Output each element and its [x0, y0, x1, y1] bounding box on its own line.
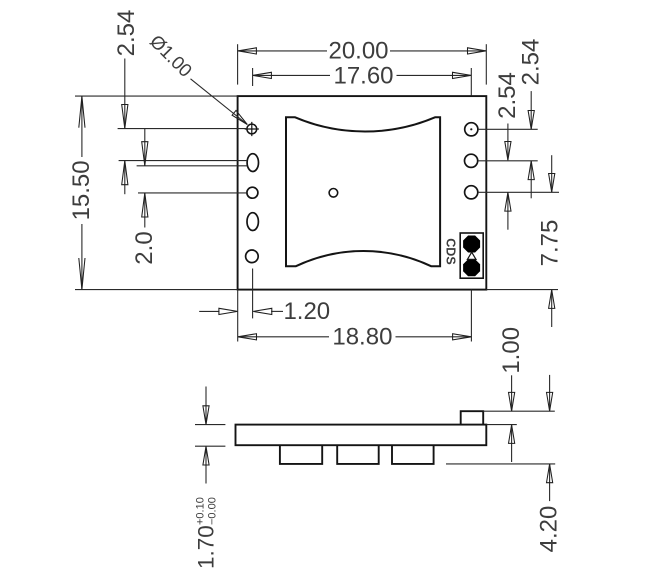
dimension 7.75 line: [551, 155, 553, 192]
arrow 1.70 (down): [203, 406, 209, 425]
arrow 2.54 right outer (up): [528, 161, 534, 180]
svg-text:Ø1.00: Ø1.00: [146, 30, 196, 80]
hole H1 extension line: [118, 128, 247, 130]
arrow 15.50 top (up): [79, 96, 85, 127]
right hole extension lines: [478, 128, 538, 130]
svg-text:20.00: 20.00: [328, 38, 388, 65]
arrow 20.00 left: [238, 48, 257, 54]
svg-text:18.80: 18.80: [332, 324, 392, 351]
arrow 1.00 (up): [509, 425, 515, 444]
component outline (concave-edged square): [286, 117, 440, 266]
side view bar top extension: [486, 424, 517, 426]
svg-text:2.54: 2.54: [517, 39, 544, 86]
dimension 2.54 right inner line: [507, 124, 509, 161]
svg-text:1.20: 1.20: [283, 298, 330, 325]
leader line for hole diameter: [191, 79, 248, 125]
arrow 2.54 right inner (down): [505, 142, 511, 161]
arrow 4.20 (down): [547, 392, 553, 411]
arrow 17.60 right: [453, 72, 472, 78]
hole H3 extension line: [138, 192, 247, 194]
dimension 20.00 extension lines: [237, 44, 239, 84]
dimension 2.54 left line: [124, 59, 126, 129]
arrow 1.20 right (left-pointing): [253, 308, 272, 314]
oval O2 lower extension line: [137, 165, 248, 167]
svg-text:2.0: 2.0: [131, 231, 158, 264]
side view component 2: [337, 445, 379, 464]
arrow 18.80 right: [453, 334, 472, 340]
dimension 1.70 line: [205, 387, 207, 425]
dimension 1.00 line: [511, 375, 513, 411]
extension lines below PCB: [237, 290, 239, 342]
right hole R3: [465, 186, 478, 199]
arrow 1.70 (up): [203, 446, 209, 465]
arrow 1.20 left (right-pointing): [219, 308, 238, 314]
oval pad O4: [247, 213, 258, 231]
svg-text:4.20: 4.20: [536, 506, 563, 553]
arrow 17.60 left: [253, 72, 272, 78]
arrow 7.75 (down): [549, 174, 555, 193]
hole H5: [246, 250, 259, 263]
side view component 1: [280, 445, 322, 464]
CDS sensor bottom pad: [463, 259, 480, 276]
oval pad O2: [247, 154, 258, 172]
dimension 2.54 right outer line: [530, 91, 532, 129]
right hole R1 with center dot: [465, 123, 478, 136]
dimension 4.20 line: [549, 375, 551, 411]
dimension 17.60 line: [253, 74, 330, 76]
arrow 1.00 (down): [509, 392, 515, 411]
side view PCB bar: [236, 425, 487, 446]
bottom edge extension line: [75, 289, 238, 291]
dimension 18.80 line: [238, 336, 329, 338]
arrow 2.0 (down): [142, 142, 148, 166]
svg-text:+0.10: +0.10: [195, 497, 207, 525]
svg-text:15.50: 15.50: [68, 160, 95, 220]
arrow 2.0 (up): [142, 193, 148, 217]
side view component 3: [392, 445, 434, 464]
side view step top extension: [483, 410, 555, 412]
dimension 20.00 line: [238, 50, 327, 52]
side view component bottom extension: [446, 463, 555, 465]
right hole R2: [465, 154, 478, 167]
arrow 4.20 (up): [547, 464, 553, 483]
CDS triangle marker: [467, 252, 476, 259]
svg-text:CDS: CDS: [444, 238, 458, 264]
dimension 15.50 line: [81, 96, 83, 157]
side view shield step: [461, 411, 484, 424]
PCB outline top view: [238, 96, 487, 290]
svg-text:2.54: 2.54: [113, 10, 140, 57]
arrow 2.54 right inner (up): [505, 193, 511, 212]
arrow 20.00 right: [468, 48, 487, 54]
CDS sensor body: [460, 233, 483, 278]
dimension 1.20 line: [199, 310, 219, 312]
arrow 2.54 left (down at hole1 line): [122, 105, 128, 129]
CDS sensor top pad: [463, 236, 480, 253]
dimension 2.0 line: [144, 129, 146, 166]
center hole: [329, 189, 338, 198]
svg-text:17.60: 17.60: [333, 62, 393, 89]
dimension 17.60 extension lines: [252, 68, 254, 86]
hole H3: [247, 187, 258, 198]
hole H1 with cross: [247, 124, 257, 134]
svg-text:1.70: 1.70: [193, 525, 218, 569]
arrow 2.54 right outer (down): [528, 111, 534, 130]
dim text 1.70 with tolerance: [193, 497, 218, 569]
svg-text:−0.00: −0.00: [207, 497, 219, 525]
arrow 2.54 left (up at oval line): [122, 161, 128, 185]
svg-text:7.75: 7.75: [536, 220, 563, 267]
oval O2 upper extension line: [119, 160, 248, 162]
leader arrowhead: [232, 110, 247, 124]
arrow 15.50 bottom (down): [79, 258, 85, 289]
1.70 dimension ticks: [195, 424, 225, 426]
arrow 7.75 (up): [549, 290, 555, 309]
svg-text:1.00: 1.00: [498, 327, 525, 374]
arrow 18.80 left: [238, 334, 257, 340]
top edge extension line (left): [75, 95, 238, 97]
